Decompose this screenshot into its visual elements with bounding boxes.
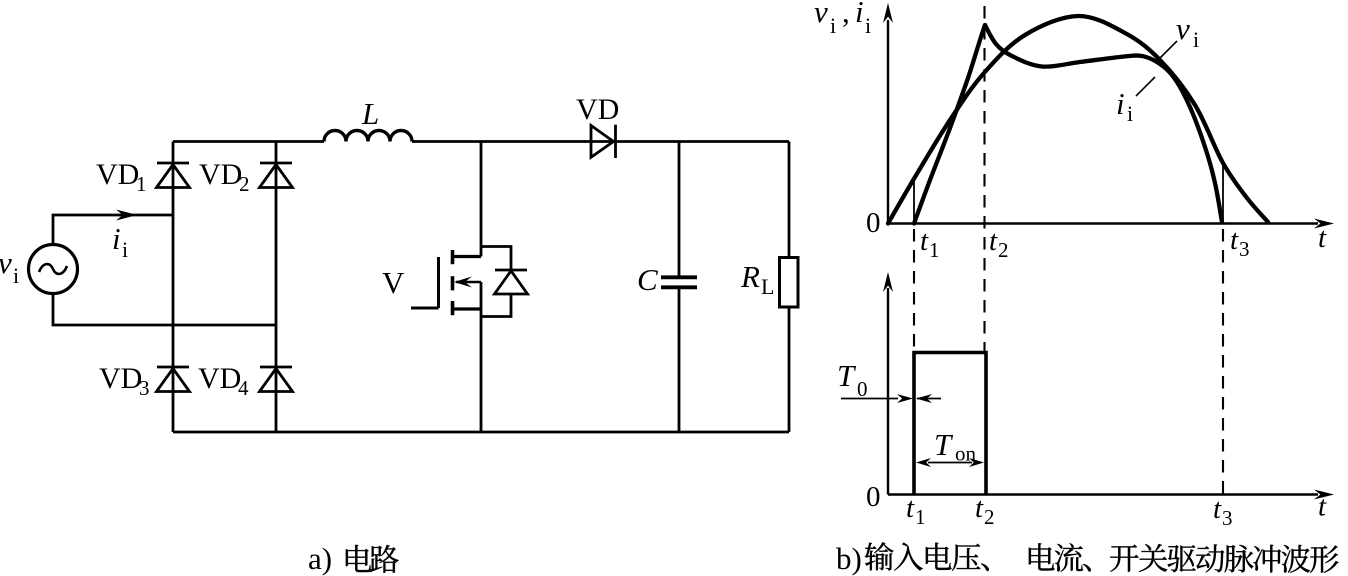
diode VD1 bbox=[157, 163, 190, 188]
svg-text:v: v bbox=[814, 0, 828, 29]
svg-text:VD: VD bbox=[99, 362, 142, 395]
svg-text:3: 3 bbox=[1239, 237, 1250, 261]
svg-text:i: i bbox=[1193, 27, 1199, 52]
t3 dashed line bbox=[1222, 229, 1224, 495]
svg-text:2: 2 bbox=[239, 172, 250, 196]
wire: MOSFET source branch bbox=[480, 282, 483, 432]
axis label v_i, i_i bbox=[814, 0, 871, 38]
wire: top rail left segment bbox=[173, 140, 324, 143]
wire: right bridge leg bbox=[275, 142, 278, 433]
wire: source bottom lead bbox=[53, 294, 276, 326]
wire: MOSFET drain branch bbox=[480, 142, 483, 257]
svg-text:VD: VD bbox=[96, 158, 139, 191]
svg-text:i: i bbox=[1127, 101, 1133, 126]
t2 dashed line bbox=[983, 6, 985, 353]
svg-text:L: L bbox=[761, 274, 774, 299]
svg-text:2: 2 bbox=[998, 238, 1009, 262]
label t2 (bottom) bbox=[975, 492, 995, 529]
wire: bottom rail bbox=[173, 431, 789, 434]
svg-text:2: 2 bbox=[984, 505, 995, 529]
label V bbox=[382, 265, 405, 300]
curve v_i bbox=[888, 16, 1268, 224]
svg-text:VD: VD bbox=[576, 93, 619, 126]
svg-text:VD: VD bbox=[198, 362, 241, 395]
resistor RL bbox=[780, 258, 799, 308]
label i_i (curve) with leader bbox=[1116, 77, 1155, 126]
svg-text:1: 1 bbox=[929, 238, 940, 262]
svg-text:T: T bbox=[837, 358, 857, 393]
transistor V (MOSFET) bbox=[411, 250, 481, 315]
label 0 (top graph) bbox=[866, 207, 881, 239]
bottom graph y-axis bbox=[883, 272, 893, 495]
label T0 bbox=[837, 358, 868, 401]
label t3 (top) bbox=[1230, 224, 1250, 261]
top graph x-axis bbox=[888, 219, 1334, 229]
top graph y-axis bbox=[883, 3, 893, 224]
svg-text:4: 4 bbox=[238, 376, 249, 400]
t1 marker line (solid above axis) bbox=[913, 177, 915, 224]
svg-text:1: 1 bbox=[915, 505, 926, 529]
Ton double arrow bbox=[916, 458, 984, 467]
svg-text:v: v bbox=[1176, 11, 1190, 46]
voltage source v_i bbox=[29, 245, 78, 294]
caption b) waveform description bbox=[836, 541, 1339, 576]
svg-text:t: t bbox=[906, 492, 915, 524]
label VD1 bbox=[96, 158, 147, 196]
svg-text:1: 1 bbox=[136, 172, 147, 196]
wire: load top lead bbox=[788, 142, 791, 258]
label v_i (source) bbox=[0, 245, 19, 288]
svg-text:i: i bbox=[830, 13, 836, 38]
label v_i (curve) with leader bbox=[1158, 11, 1199, 60]
current arrow i_i bbox=[116, 210, 137, 221]
diode VD bbox=[591, 125, 616, 158]
svg-text:V: V bbox=[382, 265, 405, 300]
svg-text:VD: VD bbox=[199, 158, 242, 191]
label t1 (bottom) bbox=[906, 492, 926, 529]
diode VD3 bbox=[157, 367, 190, 392]
wire: capacitor bottom lead bbox=[678, 289, 681, 432]
svg-text:L: L bbox=[361, 96, 379, 131]
svg-text:0: 0 bbox=[857, 377, 868, 401]
capacitor C bbox=[661, 277, 697, 287]
svg-text:t: t bbox=[1230, 224, 1239, 256]
label VD2 bbox=[199, 158, 250, 196]
body diode of V bbox=[481, 247, 528, 317]
wire: source top lead bbox=[53, 215, 173, 245]
label VD4 bbox=[198, 362, 249, 400]
drive pulse waveform bbox=[914, 353, 986, 495]
diode VD2 bbox=[260, 163, 293, 188]
svg-text:i: i bbox=[112, 221, 121, 256]
label L bbox=[361, 96, 379, 131]
wire: left bridge leg bbox=[172, 142, 175, 433]
svg-text:t: t bbox=[989, 225, 998, 257]
svg-text:C: C bbox=[637, 262, 658, 297]
svg-text:i: i bbox=[13, 263, 19, 288]
svg-text:3: 3 bbox=[1222, 506, 1233, 530]
svg-text:t: t bbox=[1318, 491, 1327, 523]
caption a) dianlu bbox=[308, 541, 399, 576]
t1 dashed line bbox=[913, 229, 915, 353]
svg-text:t: t bbox=[1318, 222, 1327, 254]
svg-text:v: v bbox=[0, 245, 12, 280]
label t3 (bottom) bbox=[1213, 493, 1233, 530]
svg-text:T: T bbox=[934, 427, 954, 462]
svg-text:i: i bbox=[122, 237, 128, 262]
svg-text:i: i bbox=[865, 13, 871, 38]
T0 arrows bbox=[841, 394, 941, 403]
label t (bottom axis) bbox=[1318, 491, 1327, 523]
t3 marker line (solid above axis) bbox=[1222, 166, 1224, 224]
label C bbox=[637, 262, 658, 297]
svg-text:a): a) bbox=[308, 541, 332, 576]
label i_i bbox=[112, 221, 128, 262]
label VD3 bbox=[99, 362, 150, 400]
bottom graph x-axis bbox=[888, 490, 1334, 500]
svg-text:t: t bbox=[920, 225, 929, 257]
wire: top rail middle segment bbox=[412, 140, 789, 143]
label RL bbox=[740, 259, 774, 299]
wire: load bottom lead bbox=[788, 307, 791, 432]
svg-text:i: i bbox=[1116, 86, 1125, 121]
svg-text:0: 0 bbox=[866, 481, 881, 513]
label Ton bbox=[934, 427, 977, 466]
svg-text:0: 0 bbox=[866, 207, 881, 239]
label 0 (bottom graph) bbox=[866, 481, 881, 513]
diode VD4 bbox=[260, 367, 293, 392]
label t (top axis) bbox=[1318, 222, 1327, 254]
inductor L bbox=[324, 131, 412, 142]
label t1 (top) bbox=[920, 225, 940, 262]
label VD bbox=[576, 93, 619, 126]
svg-text:,: , bbox=[842, 0, 850, 29]
svg-text:b): b) bbox=[836, 541, 862, 576]
svg-text:i: i bbox=[855, 0, 864, 29]
wire: capacitor top lead bbox=[678, 142, 681, 277]
curve i_i bbox=[914, 25, 1222, 224]
svg-text:3: 3 bbox=[139, 376, 150, 400]
label t2 (top) bbox=[989, 225, 1009, 262]
svg-text:t: t bbox=[975, 492, 984, 524]
svg-text:R: R bbox=[740, 259, 760, 294]
svg-text:t: t bbox=[1213, 493, 1222, 525]
